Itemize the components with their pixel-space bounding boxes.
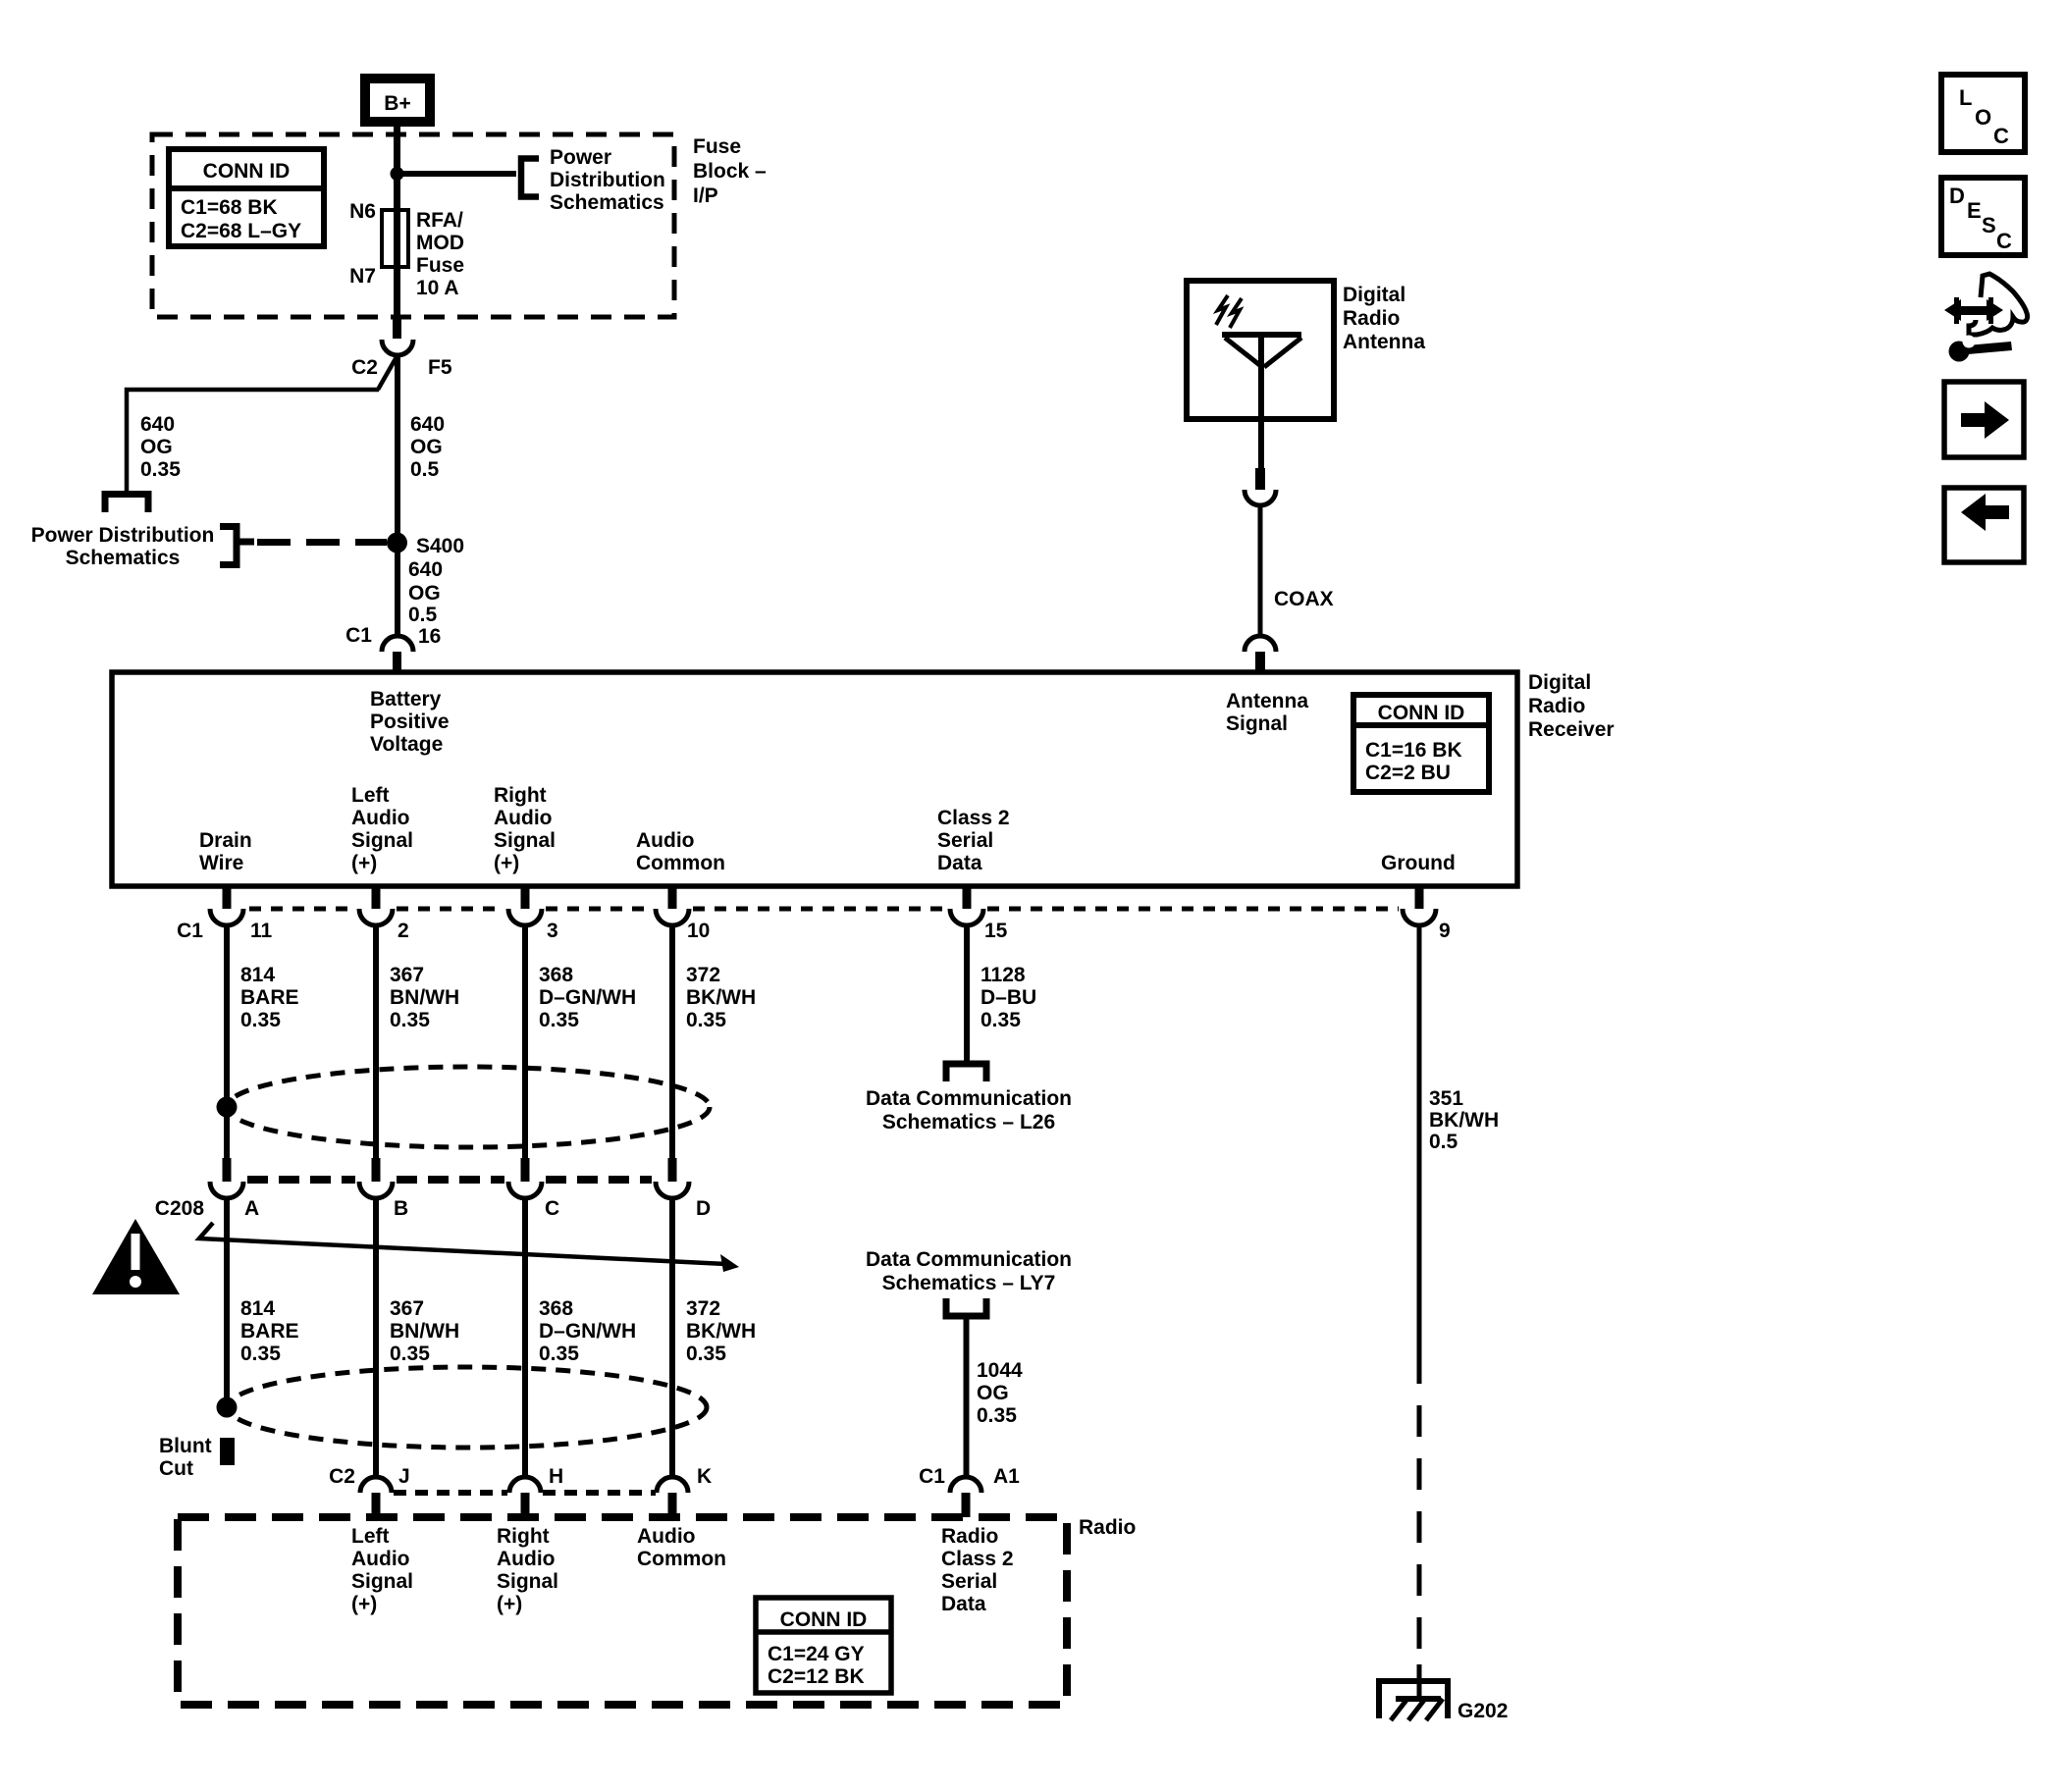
CONN ID table (radio) [756, 1598, 891, 1693]
svg-text:Signal: Signal [351, 829, 413, 852]
wire 367 BN/WH (upper) [373, 923, 379, 1160]
svg-text:640: 640 [410, 413, 445, 436]
svg-text:3: 3 [547, 920, 558, 942]
svg-text:0.5: 0.5 [410, 458, 440, 481]
svg-text:Signal: Signal [494, 829, 556, 852]
svg-text:N7: N7 [349, 265, 376, 288]
svg-text:1128: 1128 [980, 964, 1026, 986]
svg-text:C2: C2 [351, 356, 378, 379]
label 368 D-GN/WH 0.35 (lower) [539, 1297, 636, 1365]
warning triangle [92, 1219, 180, 1294]
svg-text:Wire: Wire [199, 852, 243, 874]
label 640 OG 0.5 (upper) [410, 413, 445, 481]
label 367 BN/WH 0.35 (upper) [390, 964, 459, 1031]
connector C1 pin 16 [345, 624, 441, 673]
svg-text:F5: F5 [428, 356, 452, 379]
svg-text:372: 372 [686, 964, 720, 986]
pin label Audio Common [636, 829, 725, 874]
pin label Right Audio Signal (+) (radio) [497, 1525, 558, 1615]
svg-text:BARE: BARE [240, 986, 299, 1009]
label Blunt Cut [159, 1435, 212, 1480]
connector C2 F5 [351, 340, 452, 379]
svg-text:814: 814 [240, 1297, 275, 1320]
svg-text:Positive: Positive [370, 711, 450, 733]
svg-text:11: 11 [250, 920, 273, 942]
svg-text:S: S [1982, 213, 1996, 237]
label RFA/MOD Fuse 10 A [416, 209, 464, 299]
svg-text:0.35: 0.35 [686, 1009, 726, 1031]
svg-text:Data: Data [937, 852, 982, 874]
antenna coax connector (upper) [1245, 468, 1276, 505]
svg-text:C1: C1 [919, 1465, 945, 1488]
icon forward arrow box [1944, 382, 2024, 457]
svg-text:10: 10 [687, 920, 710, 942]
label 372 BK/WH 0.35 (lower) [686, 1297, 756, 1365]
svg-text:OG: OG [408, 582, 441, 605]
svg-text:0.35: 0.35 [977, 1404, 1017, 1427]
svg-text:Fuse: Fuse [693, 135, 741, 158]
pin label Battery Positive Voltage [370, 688, 450, 756]
svg-text:Signal: Signal [1226, 712, 1288, 735]
svg-text:C1=68 BK: C1=68 BK [181, 196, 278, 219]
off-page bracket Power Distribution Schematics (fuse block) [521, 159, 539, 197]
radio connector stubs [372, 1493, 971, 1517]
wire 814 BARE (lower) [224, 1198, 230, 1406]
svg-text:Battery: Battery [370, 688, 442, 711]
connector C208 pin letters [155, 1197, 711, 1220]
svg-text:BK/WH: BK/WH [1429, 1109, 1499, 1132]
svg-text:MOD: MOD [416, 232, 464, 254]
splice S400 [387, 533, 407, 553]
svg-text:(+): (+) [351, 852, 377, 874]
wire 368 D-GN/WH (lower) [522, 1198, 528, 1479]
svg-text:Schematics: Schematics [66, 547, 181, 569]
wire 372 BK/WH (upper) [669, 923, 675, 1160]
label Fuse Block I/P [693, 135, 767, 207]
svg-text:Antenna: Antenna [1226, 690, 1308, 712]
svg-text:A1: A1 [993, 1465, 1020, 1488]
svg-text:C2=2 BU: C2=2 BU [1365, 762, 1451, 784]
receiver pin C1-11 connector (Drain) [210, 886, 243, 925]
svg-text:Radio: Radio [1343, 307, 1400, 330]
wire 814 BARE (upper) [224, 923, 230, 1160]
svg-text:Radio: Radio [1079, 1516, 1136, 1539]
svg-text:Left: Left [351, 784, 390, 807]
svg-text:C2=12 BK: C2=12 BK [768, 1665, 865, 1688]
svg-text:Signal: Signal [351, 1570, 413, 1593]
label 351 BK/WH 0.5 [1429, 1087, 1499, 1153]
icon hand with double arrow and wrench [1944, 274, 2028, 362]
svg-text:Receiver: Receiver [1528, 718, 1615, 741]
receiver pin C1-10 connector [656, 886, 689, 925]
svg-text:Antenna: Antenna [1343, 331, 1425, 353]
svg-text:Signal: Signal [497, 1570, 558, 1593]
svg-text:Digital: Digital [1528, 671, 1591, 694]
svg-text:E: E [1967, 198, 1982, 223]
svg-text:0.5: 0.5 [1429, 1131, 1458, 1153]
svg-text:0.35: 0.35 [140, 458, 181, 481]
svg-text:Audio: Audio [351, 1548, 409, 1570]
svg-text:O: O [1975, 105, 1991, 130]
svg-text:D: D [1949, 184, 1965, 208]
wire 1128 D-BU [964, 923, 970, 1061]
svg-text:Audio: Audio [636, 829, 694, 852]
svg-text:(+): (+) [497, 1593, 522, 1615]
svg-text:Audio: Audio [494, 807, 552, 829]
label Power Distribution Schematics (left) [31, 524, 215, 569]
label 640 OG 0.5 (lower) [408, 558, 443, 626]
svg-text:0.35: 0.35 [240, 1009, 281, 1031]
label 1044 OG 0.35 [977, 1359, 1023, 1427]
svg-text:A: A [244, 1197, 259, 1220]
svg-text:Block –: Block – [693, 160, 767, 183]
svg-text:Ground: Ground [1381, 852, 1456, 874]
splice node on drain (lower) [217, 1397, 238, 1418]
shield ellipse (upper) [227, 1067, 710, 1147]
svg-text:G202: G202 [1457, 1700, 1508, 1722]
svg-text:Digital: Digital [1343, 284, 1405, 306]
svg-text:Schematics: Schematics [550, 191, 664, 214]
wire branch 640 OG 0.35 [127, 355, 397, 491]
connector C2/C1 radio labels [329, 1465, 1020, 1488]
wire B+ to fuse [394, 127, 400, 319]
wire fuse to connector stub [393, 316, 401, 339]
svg-text:BARE: BARE [240, 1320, 299, 1343]
receiver pin C1-3 connector [508, 886, 542, 925]
svg-text:H: H [549, 1465, 563, 1488]
svg-text:OG: OG [140, 436, 173, 458]
svg-text:Class 2: Class 2 [941, 1548, 1014, 1570]
svg-text:C: C [1996, 229, 2012, 253]
power symbol B+ [360, 74, 435, 127]
svg-text:Data Communication: Data Communication [866, 1248, 1072, 1271]
label 372 BK/WH 0.35 (upper) [686, 964, 756, 1031]
svg-text:C208: C208 [155, 1197, 205, 1220]
off-page bracket L26 [946, 1064, 986, 1081]
svg-text:BK/WH: BK/WH [686, 1320, 756, 1343]
svg-text:OG: OG [977, 1382, 1009, 1404]
svg-text:Common: Common [636, 852, 725, 874]
svg-text:BN/WH: BN/WH [390, 1320, 459, 1343]
dashed wire to S400 [257, 539, 387, 546]
antenna symbol [1216, 295, 1301, 468]
CONN ID table (fuse block) [169, 149, 324, 246]
svg-text:Right: Right [494, 784, 547, 807]
svg-text:0.35: 0.35 [240, 1343, 281, 1365]
svg-text:Drain: Drain [199, 829, 252, 852]
svg-text:Left: Left [351, 1525, 390, 1548]
pin label Left Audio Signal (+) (radio) [351, 1525, 413, 1615]
svg-text:Fuse: Fuse [416, 254, 464, 277]
label 640 OG 0.35 [140, 413, 181, 481]
svg-text:D–GN/WH: D–GN/WH [539, 986, 636, 1009]
junction node [391, 167, 404, 181]
label Digital Radio Antenna [1343, 284, 1425, 353]
CONN ID table (receiver) [1353, 695, 1489, 792]
off-page bracket LY7 [946, 1298, 986, 1316]
svg-text:C: C [545, 1197, 559, 1220]
svg-text:372: 372 [686, 1297, 720, 1320]
splice node on drain (upper) [217, 1097, 238, 1118]
svg-text:C2: C2 [329, 1465, 355, 1488]
label Data Communication Schematics L26 [866, 1087, 1072, 1133]
svg-text:0.5: 0.5 [408, 604, 438, 626]
fuse block I/P dashed box [152, 134, 674, 317]
svg-text:Audio: Audio [351, 807, 409, 829]
svg-text:9: 9 [1439, 920, 1451, 942]
connector C208 cups [210, 1182, 689, 1198]
svg-text:(+): (+) [494, 852, 519, 874]
coax wire [1258, 504, 1263, 638]
svg-text:0.35: 0.35 [686, 1343, 726, 1365]
svg-text:15: 15 [984, 920, 1008, 942]
label 367 BN/WH 0.35 (lower) [390, 1297, 459, 1365]
svg-text:D: D [696, 1197, 711, 1220]
svg-text:367: 367 [390, 964, 424, 986]
svg-text:D–BU: D–BU [980, 986, 1036, 1009]
svg-text:L: L [1959, 85, 1972, 110]
wire 1044 OG [964, 1316, 970, 1479]
svg-text:351: 351 [1429, 1087, 1463, 1110]
svg-text:C1: C1 [177, 920, 203, 942]
svg-text:Voltage: Voltage [370, 733, 443, 756]
wire 372 BK/WH (lower) [669, 1198, 675, 1479]
svg-text:1044: 1044 [977, 1359, 1023, 1382]
svg-text:Class 2: Class 2 [937, 807, 1010, 829]
Digital Radio Antenna box [1187, 281, 1334, 419]
svg-text:Serial: Serial [941, 1570, 997, 1593]
svg-text:Blunt: Blunt [159, 1435, 212, 1457]
svg-text:0.35: 0.35 [539, 1343, 579, 1365]
svg-text:814: 814 [240, 964, 275, 986]
icon LOC box [1941, 75, 2025, 152]
off-page bracket to S400 [220, 527, 237, 565]
ground G202 [1379, 1664, 1508, 1722]
svg-text:CONN ID: CONN ID [780, 1608, 868, 1631]
svg-text:Right: Right [497, 1525, 550, 1548]
wire junction to bracket [397, 171, 516, 177]
svg-text:C2=68 L–GY: C2=68 L–GY [181, 220, 301, 242]
svg-text:CONN ID: CONN ID [203, 160, 291, 183]
svg-text:0.35: 0.35 [390, 1343, 430, 1365]
label 814 BARE 0.35 (lower) [240, 1297, 299, 1365]
wire 351 BK/WH solid [1417, 923, 1422, 1352]
svg-text:0.35: 0.35 [980, 1009, 1021, 1031]
svg-text:C1: C1 [345, 624, 372, 647]
svg-text:K: K [697, 1465, 712, 1488]
pin label Radio Class 2 Serial Data [941, 1525, 1014, 1615]
connector C208 dashed line [247, 1176, 652, 1184]
wire main below C2 [395, 354, 400, 636]
svg-text:640: 640 [408, 558, 443, 581]
svg-text:N6: N6 [349, 200, 376, 223]
svg-text:Common: Common [637, 1548, 726, 1570]
pin label Class 2 Serial Data [937, 807, 1010, 874]
icon DESC box [1941, 178, 2025, 255]
label 1128 D-BU 0.35 [980, 964, 1036, 1031]
wire 368 D-GN/WH (upper) [522, 923, 528, 1160]
svg-text:16: 16 [418, 625, 441, 648]
icon back arrow box [1944, 488, 2024, 562]
receiver pin C1-9 connector (Ground) [1403, 886, 1436, 925]
fuse RFA/MOD 10A [382, 210, 408, 267]
wire 367 BN/WH (lower) [373, 1198, 379, 1479]
receiver pin C1-15 connector [950, 886, 983, 925]
svg-text:Data: Data [941, 1593, 986, 1615]
svg-text:Audio: Audio [497, 1548, 555, 1570]
svg-text:367: 367 [390, 1297, 424, 1320]
connector C1 pin numbers [177, 920, 1451, 942]
receiver pin C1-2 connector [359, 886, 393, 925]
svg-text:Schematics – L26: Schematics – L26 [882, 1111, 1055, 1133]
svg-text:OG: OG [410, 436, 443, 458]
svg-text:D–GN/WH: D–GN/WH [539, 1320, 636, 1343]
pin label Audio Common (radio) [637, 1525, 726, 1570]
svg-text:Schematics – LY7: Schematics – LY7 [882, 1272, 1056, 1294]
svg-text:368: 368 [539, 1297, 573, 1320]
svg-text:0.35: 0.35 [539, 1009, 579, 1031]
svg-text:COAX: COAX [1274, 588, 1334, 610]
radio connector dashed line [394, 1490, 656, 1496]
svg-text:Radio: Radio [1528, 695, 1585, 717]
svg-text:BK/WH: BK/WH [686, 986, 756, 1009]
pin label Left Audio Signal (+) [351, 784, 413, 874]
label 368 D-GN/WH 0.35 (upper) [539, 964, 636, 1031]
off-page bracket (640 branch end) [105, 495, 148, 513]
svg-text:B: B [394, 1197, 408, 1220]
svg-text:Distribution: Distribution [550, 169, 665, 191]
shield ellipse (lower) [228, 1367, 707, 1448]
svg-text:10 A: 10 A [416, 277, 459, 299]
svg-text:Serial: Serial [937, 829, 993, 852]
pin label Drain Wire [199, 829, 252, 874]
label 814 BARE 0.35 (upper) [240, 964, 299, 1031]
pin label Right Audio Signal (+) [494, 784, 556, 874]
svg-text:S400: S400 [416, 535, 464, 557]
svg-text:I/P: I/P [693, 184, 718, 207]
svg-text:C: C [1993, 124, 2009, 148]
Digital Radio Receiver box [112, 672, 1517, 886]
svg-text:J: J [398, 1465, 410, 1488]
wire 351 BK/WH dashed [1417, 1352, 1422, 1668]
svg-text:C1=16 BK: C1=16 BK [1365, 739, 1462, 762]
antenna signal connector (into receiver) [1245, 636, 1276, 673]
label Power Distribution Schematics (top) [550, 146, 665, 214]
svg-text:Data Communication: Data Communication [866, 1087, 1072, 1110]
Radio dashed box [178, 1517, 1067, 1705]
svg-text:Radio: Radio [941, 1525, 998, 1548]
svg-text:(+): (+) [351, 1593, 377, 1615]
svg-text:RFA/: RFA/ [416, 209, 463, 232]
svg-text:B+: B+ [384, 92, 410, 115]
svg-text:0.35: 0.35 [390, 1009, 430, 1031]
blunt cut terminal [220, 1438, 235, 1465]
svg-text:640: 640 [140, 413, 175, 436]
connector C1 dashed line [249, 907, 1399, 912]
svg-text:368: 368 [539, 964, 573, 986]
svg-text:Audio: Audio [637, 1525, 695, 1548]
label Data Communication Schematics LY7 [866, 1248, 1072, 1294]
label Digital Radio Receiver [1528, 671, 1615, 741]
connector C208 stubs [223, 1158, 677, 1182]
svg-text:C1=24 GY: C1=24 GY [768, 1643, 865, 1665]
svg-text:CONN ID: CONN ID [1378, 702, 1465, 724]
svg-text:BN/WH: BN/WH [390, 986, 459, 1009]
svg-text:Power Distribution: Power Distribution [31, 524, 215, 547]
svg-text:Power: Power [550, 146, 611, 169]
svg-text:2: 2 [397, 920, 409, 942]
twisted pair pointer arrow [199, 1223, 739, 1272]
radio connector domes [360, 1477, 981, 1493]
pin label Antenna Signal [1226, 690, 1308, 735]
svg-text:Cut: Cut [159, 1457, 193, 1480]
